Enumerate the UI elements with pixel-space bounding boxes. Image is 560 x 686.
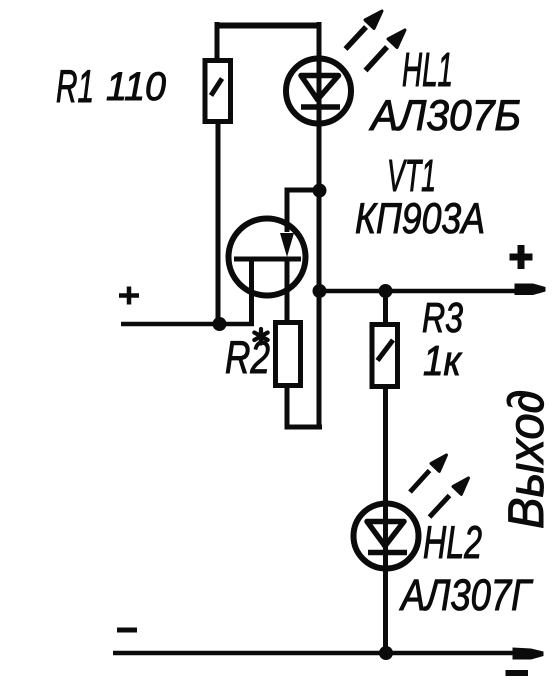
svg-text:110: 110 (106, 65, 166, 109)
transistor VT1 drain lead down to R2 (285, 259, 290, 322)
transistor VT1 circle (229, 219, 306, 296)
resistor R3 power slash (378, 340, 394, 361)
LED HL1 diode triangle (301, 76, 339, 100)
wire plus input line (121, 322, 254, 327)
wire drain column from gate node to R2 elbow (317, 188, 322, 427)
LED HL2 diode triangle (367, 522, 404, 547)
wire top rail from R1 top to HL1 top (215, 23, 320, 29)
svg-text:HL1: HL1 (402, 44, 453, 97)
wire R3 bottom lead to HL2 (383, 389, 388, 504)
LED HL1 circle (286, 59, 351, 124)
node R3 junction dot (379, 284, 393, 298)
wire output plus line (319, 289, 540, 294)
label minus left (117, 628, 137, 633)
wire R1 bottom lead down to plus node (216, 124, 221, 325)
wire gate elbow from junction to transistor (287, 190, 322, 232)
wire R2 bottom elbow to drain column (287, 388, 322, 427)
wire R3 top lead (383, 291, 388, 324)
LED HL2 light arrow 1 (410, 455, 447, 492)
svg-text:АЛ307Б: АЛ307Б (368, 92, 521, 140)
svg-text:1к: 1к (423, 337, 463, 384)
svg-text:АЛ307Г: АЛ307Г (399, 571, 534, 620)
label R2 asterisk (254, 329, 267, 344)
node gate junction dot (313, 184, 327, 198)
resistor R1 power slash (211, 79, 222, 96)
svg-text:R3: R3 (422, 294, 463, 341)
LED HL2 light arrow 2 (430, 478, 469, 517)
resistor R1 (205, 61, 231, 122)
svg-text:HL2: HL2 (423, 516, 482, 568)
wire R1 top lead (215, 22, 220, 60)
LED HL1 cathode bar (301, 104, 340, 110)
node bottom junction dot (379, 646, 393, 660)
output minus arrowhead (513, 648, 544, 660)
resistor R3 (372, 325, 398, 387)
node plus input junction dot (213, 317, 227, 331)
wire bottom minus rail (113, 651, 540, 656)
transistor VT1 source lead to plus line (249, 259, 254, 324)
label minus right (506, 670, 529, 676)
output plus arrowhead (515, 284, 546, 296)
LED HL2 circle (354, 504, 419, 569)
LED HL2 wire through (383, 504, 388, 653)
LED HL1 light arrow 1 (346, 11, 383, 49)
label plus left (119, 287, 139, 305)
svg-text:VT1: VT1 (387, 150, 436, 201)
label plus right (510, 245, 533, 269)
svg-text:Выхо∂: Выхо∂ (498, 390, 554, 529)
node output junction dot on drain column (313, 284, 327, 298)
LED HL2 cathode bar (368, 550, 407, 556)
transistor VT1 channel bar (234, 257, 301, 262)
wire HL1 top lead from rail through LED down to gate node (317, 22, 322, 192)
LED HL1 light arrow 2 (366, 30, 406, 71)
svg-text:КП903А: КП903А (355, 195, 485, 243)
svg-text:R1: R1 (56, 60, 94, 112)
transistor VT1 gate arrowhead (280, 233, 294, 257)
resistor R2 (276, 323, 301, 386)
